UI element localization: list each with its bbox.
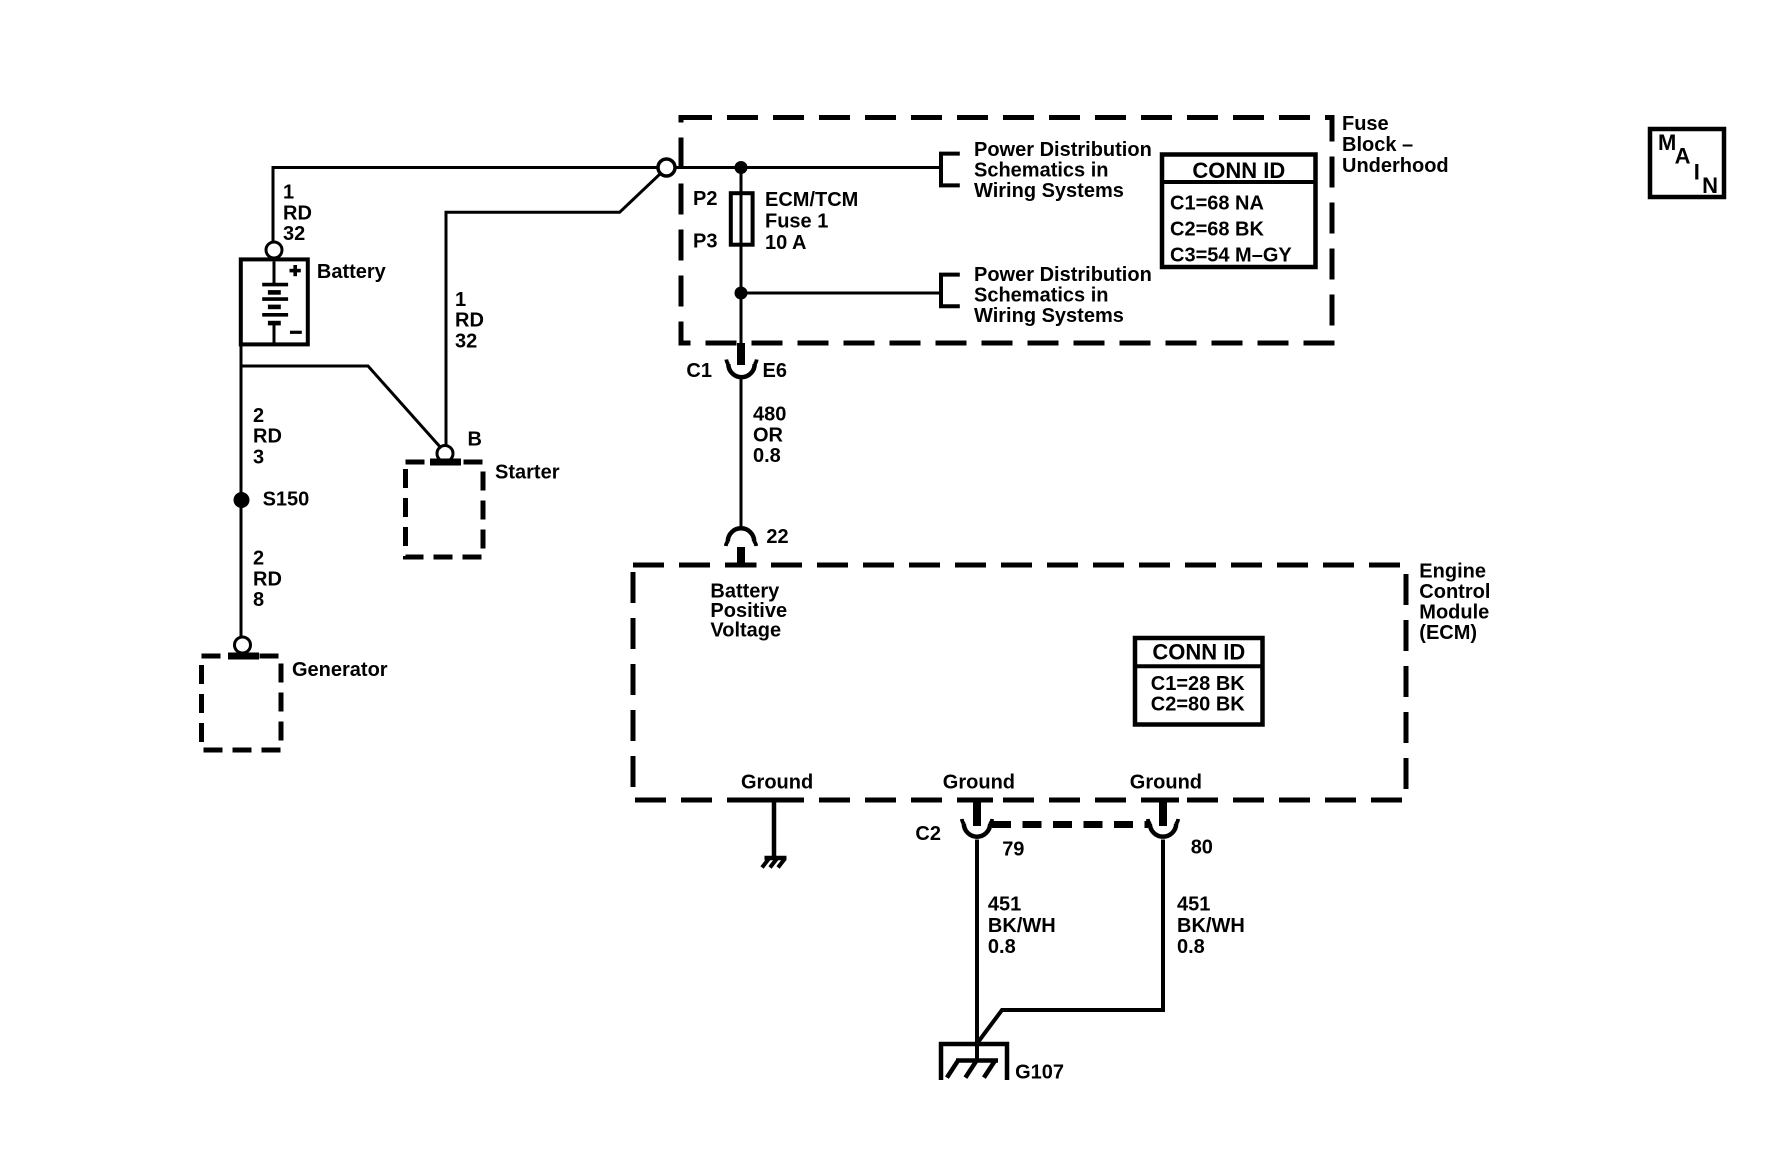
svg-text:Ground: Ground xyxy=(943,772,1015,794)
svg-text:Voltage: Voltage xyxy=(710,620,781,642)
svg-text:480: 480 xyxy=(753,404,786,426)
svg-text:Wiring Systems: Wiring Systems xyxy=(974,305,1124,327)
svg-text:Schematics in: Schematics in xyxy=(974,160,1109,182)
svg-text:RD: RD xyxy=(283,202,312,224)
svg-text:79: 79 xyxy=(1002,838,1024,860)
svg-text:Ground: Ground xyxy=(1130,772,1202,794)
svg-text:C2: C2 xyxy=(915,823,941,845)
svg-text:C2=68 BK: C2=68 BK xyxy=(1170,219,1264,241)
svg-text:22: 22 xyxy=(766,526,788,548)
svg-text:(ECM): (ECM) xyxy=(1419,622,1477,644)
svg-text:M: M xyxy=(1658,130,1676,155)
svg-text:1: 1 xyxy=(455,289,466,311)
svg-text:P3: P3 xyxy=(693,230,717,252)
svg-text:C3=54 M–GY: C3=54 M–GY xyxy=(1170,245,1292,267)
svg-text:451: 451 xyxy=(988,894,1021,916)
svg-text:Ground: Ground xyxy=(741,772,813,794)
svg-text:2: 2 xyxy=(253,405,264,427)
svg-text:Battery: Battery xyxy=(317,261,387,283)
svg-text:S150: S150 xyxy=(263,488,310,510)
svg-text:0.8: 0.8 xyxy=(988,936,1016,958)
svg-text:10 A: 10 A xyxy=(765,232,807,254)
svg-text:80: 80 xyxy=(1191,837,1213,859)
svg-text:C1=68 NA: C1=68 NA xyxy=(1170,193,1264,215)
svg-text:ECM/TCM: ECM/TCM xyxy=(765,189,858,211)
svg-text:0.8: 0.8 xyxy=(753,445,781,467)
svg-text:32: 32 xyxy=(283,223,305,245)
svg-text:CONN ID: CONN ID xyxy=(1192,158,1285,183)
svg-text:Module: Module xyxy=(1419,601,1489,623)
svg-text:Engine: Engine xyxy=(1419,561,1486,583)
svg-text:451: 451 xyxy=(1177,894,1210,916)
svg-text:Schematics in: Schematics in xyxy=(974,284,1109,306)
svg-text:Control: Control xyxy=(1419,581,1490,603)
svg-text:I: I xyxy=(1694,159,1700,184)
svg-text:C1: C1 xyxy=(686,360,712,382)
svg-text:32: 32 xyxy=(455,330,477,352)
svg-text:BK/WH: BK/WH xyxy=(988,915,1056,937)
svg-text:0.8: 0.8 xyxy=(1177,936,1205,958)
svg-text:Underhood: Underhood xyxy=(1342,155,1449,177)
svg-text:RD: RD xyxy=(455,310,484,332)
svg-text:Power Distribution: Power Distribution xyxy=(974,139,1152,161)
svg-text:Wiring Systems: Wiring Systems xyxy=(974,180,1124,202)
svg-text:3: 3 xyxy=(253,446,264,468)
svg-text:C1=28 BK: C1=28 BK xyxy=(1151,673,1245,695)
svg-text:1: 1 xyxy=(283,182,294,204)
svg-text:Power Distribution: Power Distribution xyxy=(974,264,1152,286)
svg-text:OR: OR xyxy=(753,424,784,446)
svg-text:Block –: Block – xyxy=(1342,134,1413,156)
svg-text:2: 2 xyxy=(253,548,264,570)
svg-text:RD: RD xyxy=(253,426,282,448)
svg-text:B: B xyxy=(468,428,482,450)
svg-text:C2=80 BK: C2=80 BK xyxy=(1151,694,1245,716)
svg-text:CONN ID: CONN ID xyxy=(1152,639,1245,664)
svg-text:Fuse 1: Fuse 1 xyxy=(765,210,828,232)
svg-text:Fuse: Fuse xyxy=(1342,113,1389,135)
svg-text:Starter: Starter xyxy=(495,461,560,483)
svg-text:N: N xyxy=(1702,173,1718,198)
svg-text:BK/WH: BK/WH xyxy=(1177,915,1245,937)
svg-text:8: 8 xyxy=(253,589,264,611)
svg-text:E6: E6 xyxy=(763,360,787,382)
svg-text:P2: P2 xyxy=(693,188,717,210)
svg-text:A: A xyxy=(1675,143,1691,168)
svg-text:RD: RD xyxy=(253,568,282,590)
svg-text:Generator: Generator xyxy=(292,659,388,681)
svg-text:G107: G107 xyxy=(1015,1062,1064,1084)
